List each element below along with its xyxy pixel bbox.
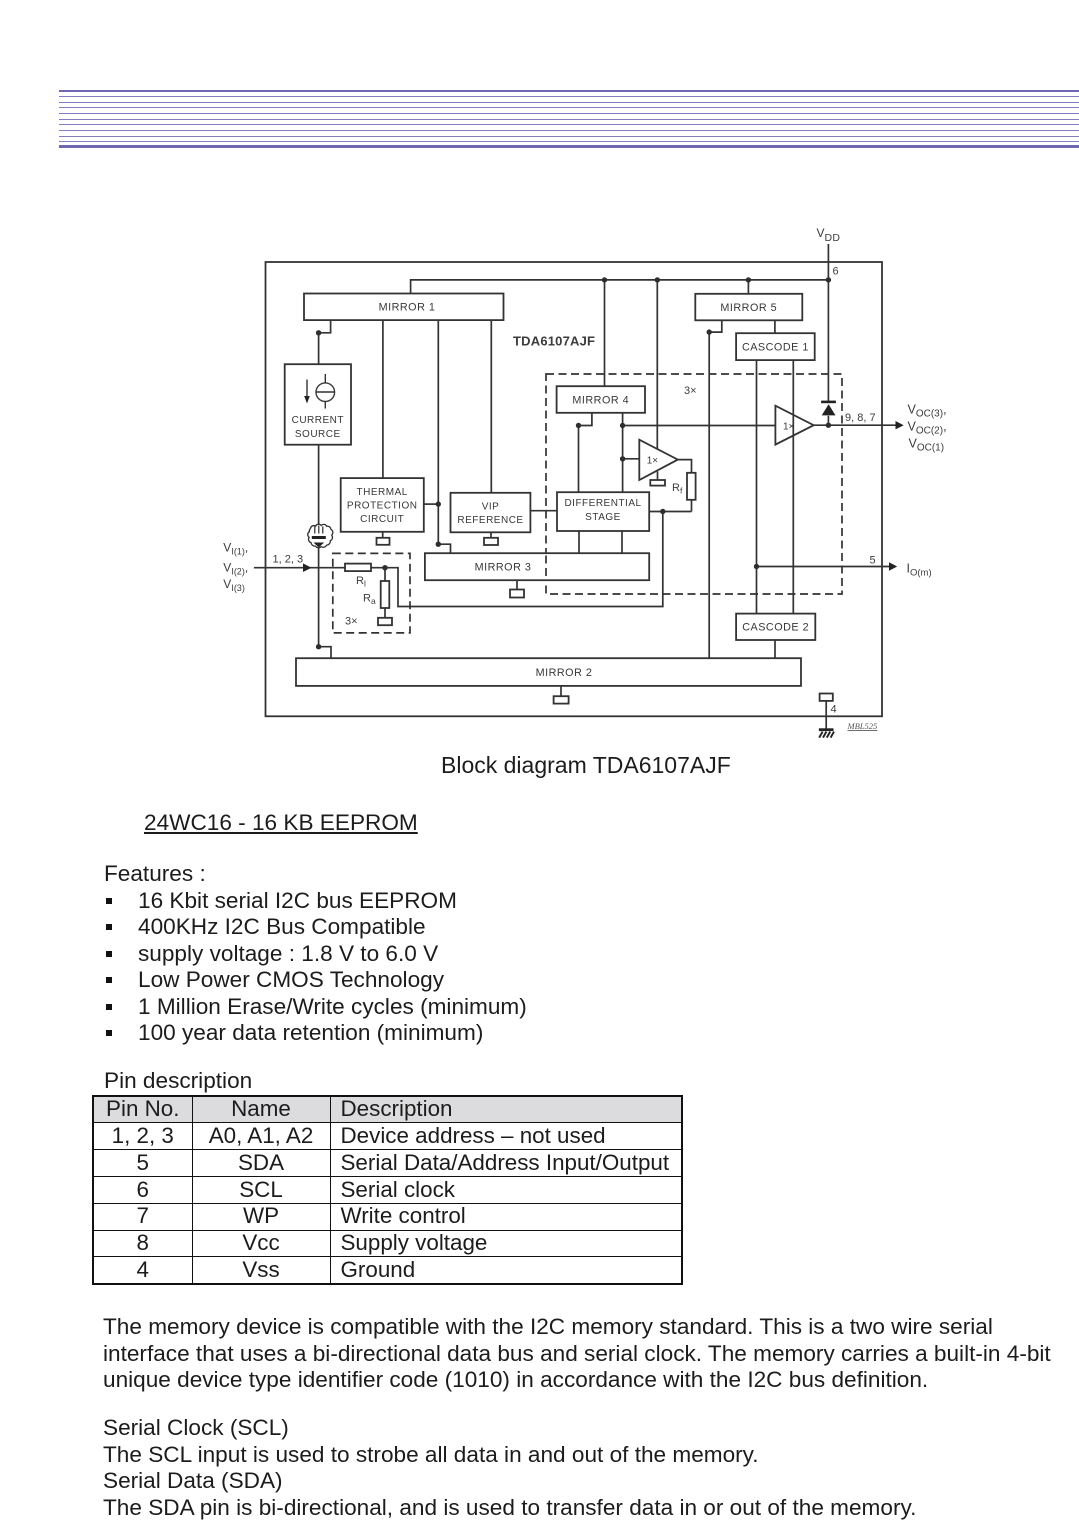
svg-text:MIRROR 3: MIRROR 3 bbox=[475, 562, 532, 574]
svg-text:VOC(1): VOC(1) bbox=[909, 437, 945, 454]
svg-text:CASCODE 1: CASCODE 1 bbox=[742, 342, 809, 354]
svg-text:MIRROR 4: MIRROR 4 bbox=[572, 395, 629, 407]
svg-text:STAGE: STAGE bbox=[585, 512, 621, 523]
svg-text:CIRCUIT: CIRCUIT bbox=[360, 514, 404, 525]
svg-text:MIRROR 5: MIRROR 5 bbox=[720, 302, 777, 314]
svg-text:REFERENCE: REFERENCE bbox=[457, 515, 523, 526]
svg-text:1×: 1× bbox=[647, 456, 659, 467]
svg-text:9, 8, 7: 9, 8, 7 bbox=[845, 412, 876, 424]
svg-text:VI(2),: VI(2), bbox=[223, 561, 248, 577]
svg-text:1×: 1× bbox=[783, 422, 795, 433]
svg-text:3×: 3× bbox=[684, 385, 697, 397]
svg-text:VDD: VDD bbox=[817, 226, 841, 244]
svg-text:PROTECTION: PROTECTION bbox=[347, 501, 418, 512]
svg-text:IO(m): IO(m) bbox=[907, 562, 932, 579]
svg-text:MIRROR 2: MIRROR 2 bbox=[536, 667, 593, 679]
svg-text:3×: 3× bbox=[345, 616, 358, 628]
svg-text:1, 2, 3: 1, 2, 3 bbox=[273, 554, 304, 566]
svg-text:CURRENT: CURRENT bbox=[292, 415, 344, 426]
svg-text:VOC(2),: VOC(2), bbox=[908, 420, 947, 437]
svg-text:SOURCE: SOURCE bbox=[295, 429, 341, 440]
svg-text:MBL525: MBL525 bbox=[847, 721, 878, 731]
svg-text:CASCODE 2: CASCODE 2 bbox=[742, 622, 809, 634]
svg-text:DIFFERENTIAL: DIFFERENTIAL bbox=[564, 498, 641, 509]
svg-text:TDA6107AJF: TDA6107AJF bbox=[513, 334, 595, 349]
svg-text:THERMAL: THERMAL bbox=[357, 487, 408, 498]
svg-text:VI(1),: VI(1), bbox=[223, 541, 248, 557]
svg-text:5: 5 bbox=[870, 555, 876, 567]
svg-text:6: 6 bbox=[833, 266, 839, 278]
svg-text:VI(3): VI(3) bbox=[223, 577, 245, 593]
svg-text:4: 4 bbox=[831, 704, 837, 716]
svg-text:VIP: VIP bbox=[482, 502, 500, 513]
svg-text:MIRROR 1: MIRROR 1 bbox=[379, 302, 436, 314]
svg-text:VOC(3),: VOC(3), bbox=[908, 403, 947, 420]
